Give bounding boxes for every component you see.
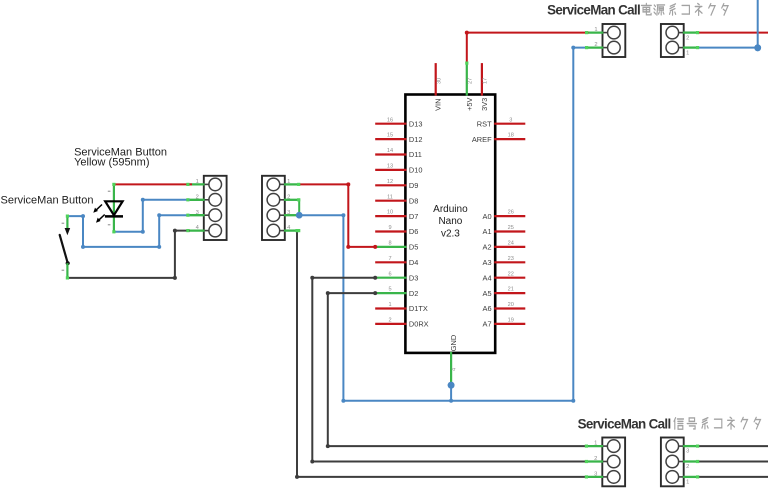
svg-text:D9: D9 <box>409 181 418 190</box>
connector S1 pin 3 <box>586 472 607 478</box>
U1 pin 27 +5V (top) <box>465 63 474 111</box>
connector J1 pin 4 <box>188 225 209 231</box>
svg-text:2: 2 <box>388 318 391 324</box>
svg-text:1: 1 <box>594 441 597 447</box>
U1 pin 8 D5 <box>375 241 418 252</box>
connector S2 pin 3 <box>679 446 698 455</box>
svg-text:1: 1 <box>388 302 391 308</box>
svg-text:5: 5 <box>388 287 391 293</box>
connector S1 body <box>602 438 625 487</box>
connector P1 body <box>603 24 626 57</box>
connector S2 pin 1 <box>679 477 698 486</box>
U1 pin 9 D6 <box>375 225 418 236</box>
svg-text:A7: A7 <box>483 320 492 329</box>
connector P1 pin 1 <box>586 27 607 33</box>
connector S2 pin 2 <box>679 462 698 471</box>
svg-text:16: 16 <box>387 117 393 123</box>
wire: LED anode to J1 pin1 (red) <box>112 183 192 186</box>
U1 pin 18 AREF <box>472 133 525 144</box>
wire: P2 pin2 to right edge (red) <box>697 32 768 34</box>
wire: J2 pin1 to U1 D5 (red) <box>298 182 378 249</box>
svg-text:3: 3 <box>287 210 290 216</box>
svg-text:A6: A6 <box>483 304 492 313</box>
svg-text:v2.3: v2.3 <box>441 229 460 240</box>
svg-text:A3: A3 <box>483 258 492 267</box>
svg-text:11: 11 <box>387 194 393 200</box>
wire: P2 pin1 to vertical net (blue) <box>697 0 758 48</box>
wire: S2 pin3 to right edge (black) <box>698 445 768 447</box>
svg-text:7: 7 <box>388 256 391 262</box>
svg-text:1: 1 <box>196 179 199 185</box>
wire: LED cathode to J1 pin2 (blue) <box>112 198 190 234</box>
svg-text:Arduino: Arduino <box>433 204 468 215</box>
svg-text:24: 24 <box>508 241 514 247</box>
svg-text:AREF: AREF <box>472 135 492 144</box>
switch SW1 ServiceMan Button <box>60 216 70 278</box>
junction node J2 pin2/3 (redraw on top) <box>296 212 303 219</box>
wire: U1 D2 to S1 pin1 (black) <box>326 291 588 448</box>
U1 pin 13 D10 <box>375 164 422 175</box>
U1 pin 3 RST <box>477 117 525 128</box>
svg-text:23: 23 <box>508 256 514 262</box>
svg-text:3V3: 3V3 <box>480 98 489 111</box>
svg-text:12: 12 <box>387 179 393 185</box>
wire: S2 pin2 to right edge (black) <box>698 461 768 463</box>
svg-text:22: 22 <box>508 271 514 277</box>
svg-text:13: 13 <box>387 164 393 170</box>
label: ServiceMan Call 電源系コネクタ (power connector title) <box>547 3 640 18</box>
svg-text:2: 2 <box>594 42 597 48</box>
svg-text:+5V: +5V <box>465 97 474 110</box>
U1 pin 10 D7 <box>375 210 418 221</box>
svg-text:D10: D10 <box>409 166 423 175</box>
LED D1 ServiceMan Button Yellow (595nm) <box>93 184 123 231</box>
junction node top-right (redraw on top) <box>754 44 761 51</box>
svg-text:D3: D3 <box>409 273 418 282</box>
U1 pin 25 A1 <box>483 225 526 236</box>
svg-text:20: 20 <box>508 302 514 308</box>
svg-text:21: 21 <box>508 287 514 293</box>
svg-text:1: 1 <box>287 179 290 185</box>
svg-text:26: 26 <box>508 210 514 216</box>
wire: S2 pin1 to right edge (black) <box>698 476 768 478</box>
U1 pin 21 A5 <box>483 287 526 298</box>
svg-text:A0: A0 <box>483 212 492 221</box>
connector S1 pin 2 <box>586 456 607 462</box>
U1 pin 11 D8 <box>375 194 418 205</box>
connector J2 pin 2 <box>280 194 299 200</box>
wire: U1 GND drop to GND bus (blue) <box>449 383 453 403</box>
svg-text:14: 14 <box>387 148 393 154</box>
svg-text:D13: D13 <box>409 119 423 128</box>
svg-text:1: 1 <box>686 480 689 486</box>
connector S2 body <box>661 438 684 487</box>
svg-text:D11: D11 <box>409 150 422 159</box>
U1 pin 23 A3 <box>483 256 526 267</box>
wire: U1 +5V to P1 pin1 (red) <box>465 31 589 65</box>
svg-text:A5: A5 <box>483 289 492 298</box>
svg-text:9: 9 <box>388 225 391 231</box>
svg-text:25: 25 <box>508 225 514 231</box>
junction node at J2 pin2/pin3 <box>296 212 303 219</box>
svg-text:A2: A2 <box>483 243 492 252</box>
connector J2 pin 3 <box>280 210 299 216</box>
svg-text:3: 3 <box>594 472 597 478</box>
connector S1 pin 1 <box>586 441 607 447</box>
svg-text:19: 19 <box>508 318 514 324</box>
U1 pin 20 A6 <box>483 302 526 313</box>
svg-text:D2: D2 <box>409 289 418 298</box>
U1 pin 1 D1TX <box>375 302 428 313</box>
svg-text:D12: D12 <box>409 135 423 144</box>
U1 pin 4 GND (bottom) <box>449 335 458 382</box>
wire: J2 pin2 to junction (green) <box>298 200 300 215</box>
svg-text:6: 6 <box>388 271 391 277</box>
U1 pin 7 D4 <box>375 256 418 267</box>
U1 pin 2 D0RX <box>375 318 428 329</box>
svg-text:D1TX: D1TX <box>409 304 428 313</box>
svg-text:ServiceMan Call: ServiceMan Call <box>578 416 671 431</box>
svg-text:1: 1 <box>686 50 689 56</box>
U1 pin 16 D13 <box>375 117 422 128</box>
svg-text:3: 3 <box>196 210 199 216</box>
U1 pin 5 D2 <box>375 287 418 298</box>
LED label <box>74 146 167 168</box>
svg-text:1: 1 <box>594 27 597 33</box>
connector J2 body <box>262 176 285 240</box>
svg-text:A4: A4 <box>483 273 492 282</box>
wire: GND net junction to J2 pin3 / power P1 pin2 (blue) <box>299 46 588 403</box>
svg-text:D7: D7 <box>409 212 418 221</box>
svg-text:ServiceMan Button: ServiceMan Button <box>1 194 94 206</box>
svg-text:D4: D4 <box>409 258 418 267</box>
U1 pin 17 3V3 (top) <box>480 63 489 111</box>
svg-text:8: 8 <box>388 241 391 247</box>
U1 pin 30 VIN (top) <box>434 63 443 111</box>
svg-text:27: 27 <box>467 78 473 84</box>
IC U1 Arduino Nano v2.3 body <box>405 95 495 353</box>
U1 pin 24 A2 <box>483 241 526 252</box>
pin connection points (green squares) <box>186 31 699 479</box>
svg-text:D8: D8 <box>409 196 418 205</box>
connector J1 pin 1 <box>188 179 209 185</box>
junction node top right <box>754 44 761 51</box>
svg-text:D0RX: D0RX <box>409 320 429 329</box>
svg-text:3: 3 <box>686 449 689 455</box>
svg-text:30: 30 <box>436 78 442 84</box>
svg-text:D5: D5 <box>409 243 418 252</box>
svg-text:15: 15 <box>387 133 393 139</box>
label: ServiceMan Call 信号系コネクタ (signal connector title) <box>578 416 671 431</box>
connector J1 body <box>204 176 227 240</box>
svg-text:GND: GND <box>449 335 458 351</box>
svg-text:3: 3 <box>509 117 512 123</box>
junction node GND <box>448 382 455 389</box>
svg-text:4: 4 <box>452 368 458 371</box>
connector J2 pin 4 <box>280 225 299 231</box>
wire: U1 D3 to S1 pin2 (black) <box>310 276 588 464</box>
connector P2 pin 2 <box>679 33 698 42</box>
connector J2 pin 1 <box>280 179 299 185</box>
svg-text:2: 2 <box>287 194 290 200</box>
svg-text:RST: RST <box>477 119 492 128</box>
svg-text:10: 10 <box>387 210 393 216</box>
connector P2 body <box>661 24 684 57</box>
connector J1 pin 2 <box>188 194 209 200</box>
U1 pin 19 A7 <box>483 318 526 329</box>
svg-text:17: 17 <box>483 78 489 84</box>
U1 pin 14 D11 <box>375 148 422 159</box>
svg-text:Yellow (595nm): Yellow (595nm) <box>74 157 149 169</box>
svg-text:D6: D6 <box>409 227 418 236</box>
svg-text:2: 2 <box>196 194 199 200</box>
U1 pin 22 A4 <box>483 271 526 282</box>
U1 pin 26 A0 <box>483 210 526 221</box>
connector P2 pin 1 <box>679 48 698 57</box>
svg-text:18: 18 <box>508 133 514 139</box>
svg-text:2: 2 <box>686 464 689 470</box>
svg-text:Nano: Nano <box>438 216 462 227</box>
U1 pin 12 D9 <box>375 179 418 190</box>
wire: J2 pin4 to S1 pin3 (black) <box>295 229 588 479</box>
wire: switch bottom to J1 pin4 (black) <box>66 229 190 280</box>
connector J1 pin 3 <box>188 210 209 216</box>
wire: switch top to J1 pin3 (blue) <box>66 213 190 249</box>
U1 pin 15 D12 <box>375 133 422 144</box>
svg-text:2: 2 <box>686 35 689 41</box>
U1 pin 6 D3 <box>375 271 418 282</box>
connector P1 pin 2 <box>586 42 607 48</box>
svg-text:VIN: VIN <box>434 99 443 111</box>
junction node GND (redraw on top) <box>448 382 455 389</box>
svg-text:ServiceMan Call: ServiceMan Call <box>547 3 640 18</box>
svg-text:A1: A1 <box>483 227 492 236</box>
svg-text:2: 2 <box>594 456 597 462</box>
